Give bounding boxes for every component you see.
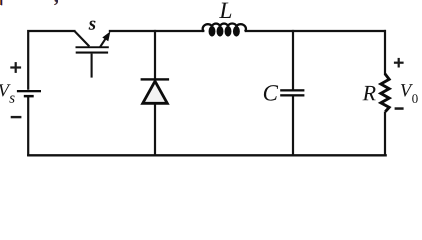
anode triangle <box>143 81 168 103</box>
polarity - (battery) <box>11 116 22 118</box>
battery Vs <box>17 90 41 97</box>
upper bar <box>76 46 109 48</box>
label V0 <box>401 84 418 103</box>
label L <box>219 3 231 18</box>
polarity - (output) <box>395 107 404 110</box>
wire capacitor branch bottom <box>292 96 294 156</box>
switch S <box>75 31 111 77</box>
diode D <box>141 78 170 103</box>
wire right vertical (top segment) <box>384 30 386 74</box>
wire diode branch bottom <box>154 104 156 157</box>
gate stub <box>91 54 93 78</box>
polarity + (battery) <box>10 62 21 73</box>
label C <box>264 85 278 100</box>
label Vs <box>0 84 15 102</box>
wire right vertical (bottom segment) <box>384 112 386 157</box>
arrow line <box>100 38 106 47</box>
inductor L <box>203 24 246 37</box>
label s <box>89 21 96 30</box>
lower bar <box>76 52 108 54</box>
cathode bar <box>141 78 170 80</box>
label R <box>362 86 375 100</box>
wire capacitor branch top <box>292 30 294 90</box>
resistor R <box>381 74 389 112</box>
wire left vertical (battery bottom to bottom rail) <box>27 97 29 157</box>
wire top (inductor to top-right corner) <box>245 30 386 32</box>
clipped text fragment (comma) <box>54 0 58 5</box>
clipped text fragment (top-left stroke) <box>0 0 2 5</box>
polarity + (output) <box>394 58 404 68</box>
slant line left <box>75 31 90 46</box>
wire top-left (battery top to switch) <box>28 31 75 90</box>
wire bottom <box>27 154 387 156</box>
capacitor C <box>280 89 304 96</box>
wire top (switch to inductor) <box>109 30 205 32</box>
arrow head <box>102 31 110 41</box>
wire diode branch top <box>154 30 156 79</box>
